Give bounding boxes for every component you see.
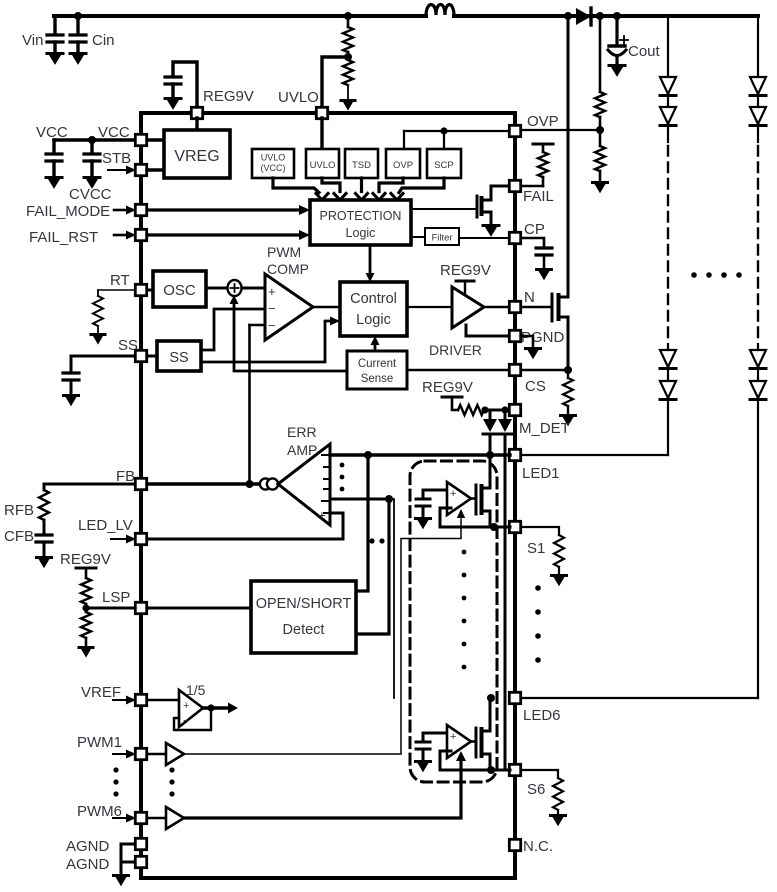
dots S channels ellipsis — [535, 585, 541, 663]
dots channel sense ellipsis — [369, 538, 384, 543]
svg-text:FB: FB — [116, 468, 135, 485]
svg-text:OPEN/SHORT: OPEN/SHORT — [256, 596, 352, 612]
op-amp DRIVER — [452, 287, 484, 328]
capacitor channel 1 reference — [416, 490, 431, 529]
pin M_DET — [509, 404, 520, 415]
svg-text:Cout: Cout — [628, 43, 661, 60]
pin SS — [135, 350, 157, 361]
wire SS to PWM COMP — [201, 309, 265, 350]
label VREF — [81, 684, 121, 701]
wire TSD to PROTECTION — [356, 178, 368, 200]
svg-text:RFB: RFB — [4, 502, 34, 519]
op-amp channel 6 — [423, 725, 471, 758]
svg-text:PROTECTION: PROTECTION — [320, 209, 402, 223]
svg-text:REG9V: REG9V — [203, 88, 254, 105]
svg-text:AGND: AGND — [66, 856, 110, 873]
resistor RFB — [39, 490, 49, 534]
svg-text:+: + — [183, 700, 189, 712]
svg-text:SCP: SCP — [434, 160, 454, 171]
label FAIL_MODE — [26, 203, 110, 220]
svg-text:PWM1: PWM1 — [77, 734, 122, 751]
wire FB to PWM COMP inverting input — [250, 325, 266, 484]
label FAIL — [523, 188, 554, 205]
label AGND upper — [66, 838, 110, 855]
block Current Sense — [347, 351, 407, 389]
wire channel 1 feedback to S1 — [440, 508, 510, 531]
svg-text:FAIL_RST: FAIL_RST — [29, 229, 98, 246]
svg-text:−: − — [268, 318, 276, 333]
pin REG9V (top) — [191, 107, 202, 118]
label LED_LV — [78, 517, 133, 534]
wire 1/5 feedback — [174, 708, 211, 730]
node summing junction — [228, 280, 242, 296]
block UVLO(VCC) — [252, 149, 294, 178]
svg-text:LED_LV: LED_LV — [78, 517, 133, 534]
chopper symbol error amp input — [260, 478, 278, 489]
pin LED_LV — [111, 533, 147, 544]
svg-text:AGND: AGND — [66, 838, 110, 855]
diode M_DET channel-6 — [498, 410, 512, 434]
pin CP — [459, 232, 521, 243]
label VCC inner — [98, 124, 130, 141]
pin FB — [135, 478, 146, 489]
label ERR AMP — [287, 424, 317, 458]
svg-text:OSC: OSC — [163, 282, 196, 299]
label N.C. — [523, 838, 553, 855]
wire switch node vertical — [564, 12, 572, 370]
svg-text:CS: CS — [525, 378, 546, 395]
label FAIL_RST — [29, 229, 98, 246]
svg-text:DRIVER: DRIVER — [429, 342, 482, 358]
wire LED6 sense to ERR AMP — [330, 495, 394, 698]
label M_DET — [519, 420, 570, 437]
op-amp ERR AMP — [278, 444, 330, 525]
label CVCC — [69, 186, 112, 203]
ground UVLO divider — [341, 101, 355, 111]
svg-text:TSD: TSD — [352, 160, 371, 171]
pin AGND upper — [121, 838, 147, 849]
buffer PWM1 — [147, 743, 184, 765]
capacitor channel 6 reference — [416, 733, 431, 772]
resistor UVLO divider lower — [343, 60, 353, 99]
block SCP — [427, 149, 461, 178]
wire LED1 to OPEN/SHORT — [356, 455, 368, 591]
ground AGND — [114, 844, 129, 886]
pin S1 — [509, 521, 520, 532]
label Cin — [92, 32, 115, 49]
label LED1 — [522, 465, 560, 482]
wire 1/5 output arrow — [203, 703, 238, 714]
pin LSP — [135, 602, 251, 613]
label DRIVER — [429, 342, 482, 358]
svg-text:Vin: Vin — [22, 32, 43, 49]
label LSP — [102, 589, 130, 606]
capacitor Cin input caps — [47, 12, 86, 65]
transistor channel 6 MOSFET — [471, 698, 490, 770]
svg-text:FAIL: FAIL — [523, 188, 554, 205]
capacitor VCC bypass — [46, 140, 62, 189]
node UVLO tap — [322, 53, 352, 107]
wire PWM COMP to Control Logic — [313, 306, 340, 308]
dots PWM label ellipsis — [113, 767, 118, 796]
pin UVLO (top) — [316, 107, 327, 118]
svg-text:PWM6: PWM6 — [77, 803, 122, 820]
wire FAIL_RST to PROTECTION — [147, 230, 310, 240]
svg-text:LED1: LED1 — [522, 465, 560, 482]
svg-text:Cin: Cin — [92, 32, 115, 49]
svg-text:VCC: VCC — [36, 124, 68, 141]
ground OVP divider — [593, 183, 608, 194]
svg-text:S1: S1 — [527, 540, 545, 557]
pin FAIL_MODE — [114, 204, 147, 215]
wire LED6 to OPEN/SHORT — [356, 499, 389, 634]
block Control Logic — [340, 282, 407, 336]
wire UVLO to PROTECTION — [322, 178, 346, 200]
label PWM1 — [77, 734, 122, 751]
wire channel 6 feedback to S6 — [440, 751, 510, 774]
svg-text:CVCC: CVCC — [69, 186, 112, 203]
label OVP — [527, 113, 559, 130]
wire REG9V pin to VREG — [195, 118, 198, 130]
pin LED6 — [509, 692, 520, 703]
block TSD — [345, 149, 378, 178]
wire VCC input rail — [54, 136, 135, 144]
svg-text:FAIL_MODE: FAIL_MODE — [26, 203, 110, 220]
pin STB — [108, 164, 164, 175]
block OPEN/SHORT Detect — [251, 581, 356, 653]
pin N — [484, 301, 521, 312]
wire PWM6 to channel 6 — [184, 751, 466, 818]
pin VCC — [135, 134, 164, 145]
svg-text:ERR: ERR — [287, 424, 317, 440]
wire OVP pin to divider — [521, 129, 600, 131]
pin PGND — [466, 330, 521, 341]
label 1/5 — [186, 682, 206, 698]
resistor RT external — [93, 290, 135, 333]
wire PROTECTION to Control Logic — [366, 245, 375, 282]
wire FAIL_MODE to PROTECTION — [147, 205, 310, 215]
dashed channel regulator box — [410, 461, 497, 782]
resistor CS sense — [521, 366, 576, 426]
label N — [524, 289, 535, 306]
resistor S6 external — [521, 770, 566, 826]
label PWM COMP — [267, 244, 309, 277]
wire UVLO pin to UVLO block — [320, 118, 323, 149]
wire PWM1 to channel 1 — [184, 509, 465, 754]
wire LED_LV to error amp plus input — [147, 513, 343, 539]
svg-text:Detect: Detect — [283, 622, 325, 638]
resistor M_DET pull-up REG9V — [422, 379, 484, 415]
dots ERR AMP inputs ellipsis — [340, 463, 345, 492]
wire FB external — [44, 484, 135, 490]
resistor OVP divider lower — [595, 130, 605, 181]
wire summing node to PWM COMP — [242, 287, 265, 290]
pin FAIL_RST — [114, 229, 147, 240]
svg-text:Filter: Filter — [431, 233, 452, 244]
wire SS to Control Logic — [201, 317, 340, 363]
pin FAIL — [491, 180, 521, 191]
LED string at x=758 lower diodes — [750, 344, 766, 698]
wire LED1 to string — [521, 454, 668, 456]
pin N.C. — [509, 839, 520, 850]
dots channel 1 to 6 ellipsis — [462, 550, 467, 670]
LED string at x=668 lower diodes — [660, 344, 676, 455]
pin RT — [135, 284, 153, 295]
ground PGND — [521, 336, 541, 359]
block UVLO — [306, 149, 339, 178]
resistor LSP pull-up REG9V — [60, 551, 111, 608]
svg-text:UVLO: UVLO — [310, 160, 336, 171]
node LSP divider tap — [82, 604, 135, 611]
op-amp PWM COMP — [265, 274, 313, 340]
svg-text:−: − — [183, 715, 189, 727]
dots PWM buffers ellipsis — [169, 767, 174, 796]
wire FB to error amp — [147, 480, 278, 488]
block OSC — [153, 271, 206, 307]
svg-text:+: + — [268, 284, 276, 299]
svg-text:CP: CP — [524, 221, 545, 238]
svg-text:+: + — [318, 508, 326, 523]
label Vin — [22, 32, 43, 49]
wire top Vin rail — [54, 14, 758, 18]
label CS — [525, 378, 546, 395]
wire OSC to summing node — [206, 287, 227, 290]
resistor FAIL pull-up — [521, 144, 553, 186]
pin CS — [407, 364, 521, 375]
svg-text:REG9V: REG9V — [422, 379, 473, 396]
wire LED1 sense line — [330, 451, 510, 459]
svg-text:PGND: PGND — [521, 329, 565, 346]
svg-text:UVLO: UVLO — [261, 153, 286, 163]
svg-text:UVLO: UVLO — [278, 89, 319, 106]
label RT — [110, 272, 130, 289]
wire Current Sense to Control Logic — [371, 336, 380, 351]
label REG9V driver supply — [440, 262, 491, 279]
svg-text:M_DET: M_DET — [519, 420, 570, 437]
IC boundary box — [141, 113, 515, 878]
wire PROTECTION to FAIL gate — [411, 208, 477, 210]
transistor channel 1 MOSFET — [471, 455, 490, 527]
capacitor REG9V bypass — [165, 62, 197, 110]
wire UVLO(VCC) to PROTECTION — [273, 178, 328, 200]
svg-text:Logic: Logic — [346, 226, 376, 240]
svg-text:COMP: COMP — [267, 261, 309, 277]
svg-text:N: N — [524, 289, 535, 306]
wire DRIVER to PGND — [465, 325, 468, 336]
svg-text:SS: SS — [118, 337, 138, 354]
wire dashed LED string continuation x=668 — [667, 146, 669, 344]
pin PWM6 — [113, 812, 147, 823]
label STB — [102, 150, 131, 167]
block VREG — [164, 130, 230, 178]
LED string at x=668 upper diodes — [660, 16, 676, 142]
power REG9V driver bar — [456, 281, 474, 293]
svg-text:OVP: OVP — [527, 113, 559, 130]
label S1 — [527, 540, 545, 557]
op-amp channel 1 — [423, 482, 471, 515]
svg-text:AMP: AMP — [287, 442, 317, 458]
block OVP — [386, 149, 420, 178]
label CP — [524, 221, 545, 238]
wire dashed LED string continuation x=758 — [757, 146, 759, 344]
pin LED1 — [509, 449, 520, 460]
block SS soft start — [157, 341, 201, 371]
svg-text:LED6: LED6 — [523, 707, 561, 724]
svg-text:VREF: VREF — [81, 684, 121, 701]
resistor UVLO divider upper — [343, 12, 353, 58]
label CFB — [4, 528, 34, 545]
pin S6 — [509, 764, 520, 775]
label VCC outer — [36, 124, 68, 141]
label FB — [116, 468, 135, 485]
wire SCP to PROTECTION — [391, 178, 444, 200]
svg-text:REG9V: REG9V — [440, 262, 491, 279]
svg-text:+: + — [450, 731, 456, 743]
label PWM6 — [77, 803, 122, 820]
label REG9V top pin — [203, 88, 254, 105]
LED string at x=758 upper diodes — [750, 16, 766, 142]
pin VREF — [113, 694, 147, 705]
svg-text:RT: RT — [110, 272, 130, 289]
diode M_DET channel-1 — [483, 410, 497, 455]
dots more LED strings ellipsis — [691, 272, 742, 278]
svg-text:Logic: Logic — [356, 312, 391, 328]
label SS pin — [118, 337, 138, 354]
inductor L1 — [426, 5, 454, 17]
buffer PWM6 — [147, 807, 184, 829]
label Cout — [628, 43, 661, 60]
capacitor CVCC — [84, 140, 100, 189]
label RFB — [4, 502, 34, 519]
transistor FAIL open-drain MOSFET — [477, 186, 491, 224]
svg-text:LSP: LSP — [102, 589, 130, 606]
resistor OVP divider upper — [595, 12, 605, 130]
svg-text:REG9V: REG9V — [60, 551, 111, 568]
ground RT — [91, 335, 105, 345]
svg-text:SS: SS — [169, 350, 188, 366]
svg-text:VREG: VREG — [174, 148, 219, 165]
svg-text:+: + — [450, 488, 456, 500]
svg-text:PWM: PWM — [267, 244, 301, 260]
pin OVP — [404, 125, 521, 136]
svg-text:VCC: VCC — [98, 124, 130, 141]
capacitor SS external — [63, 356, 135, 406]
pin AGND lower — [121, 856, 147, 867]
wire Current Sense to summing node — [230, 295, 348, 371]
wire LED6 to string — [521, 697, 758, 699]
diode D1 (boost rectifier) — [576, 8, 591, 25]
svg-text:N.C.: N.C. — [523, 838, 553, 855]
node M_DET junction — [481, 406, 510, 413]
label S6 — [527, 781, 545, 798]
svg-text:1/5: 1/5 — [186, 682, 206, 698]
label AGND lower — [66, 856, 110, 873]
block Filter — [411, 228, 459, 245]
resistor S1 external — [521, 527, 567, 586]
wire Control Logic to DRIVER — [407, 306, 452, 308]
transistor N external switching MOSFET — [521, 294, 568, 321]
pin PWM1 — [113, 748, 147, 759]
op-amp 1/5 buffer — [147, 690, 203, 727]
svg-text:OVP: OVP — [393, 160, 413, 171]
svg-text:Sense: Sense — [361, 373, 394, 385]
label UVLO top pin — [278, 89, 319, 106]
svg-text:S6: S6 — [527, 781, 545, 798]
svg-text:Current: Current — [358, 358, 397, 370]
svg-text:CFB: CFB — [4, 528, 34, 545]
capacitor CP external — [521, 238, 552, 280]
block PROTECTION Logic — [310, 200, 411, 245]
capacitor CFB — [36, 535, 52, 568]
node OVP tap — [596, 126, 604, 134]
svg-text:STB: STB — [102, 150, 131, 167]
ground FAIL MOSFET source — [483, 226, 499, 237]
svg-text:(VCC): (VCC) — [261, 163, 286, 173]
label PGND — [521, 329, 565, 346]
svg-text:Control: Control — [350, 291, 397, 307]
wire channel bus vertical x505 — [504, 434, 507, 770]
resistor LSP lower — [79, 608, 93, 658]
svg-text:−: − — [268, 301, 276, 316]
capacitor Cout — [608, 12, 628, 77]
node LED6 junction — [487, 694, 495, 702]
label LED6 — [523, 707, 561, 724]
wire OVP block to PROTECTION — [373, 178, 403, 200]
wire OVP to OVP/SCP blocks — [404, 127, 448, 149]
